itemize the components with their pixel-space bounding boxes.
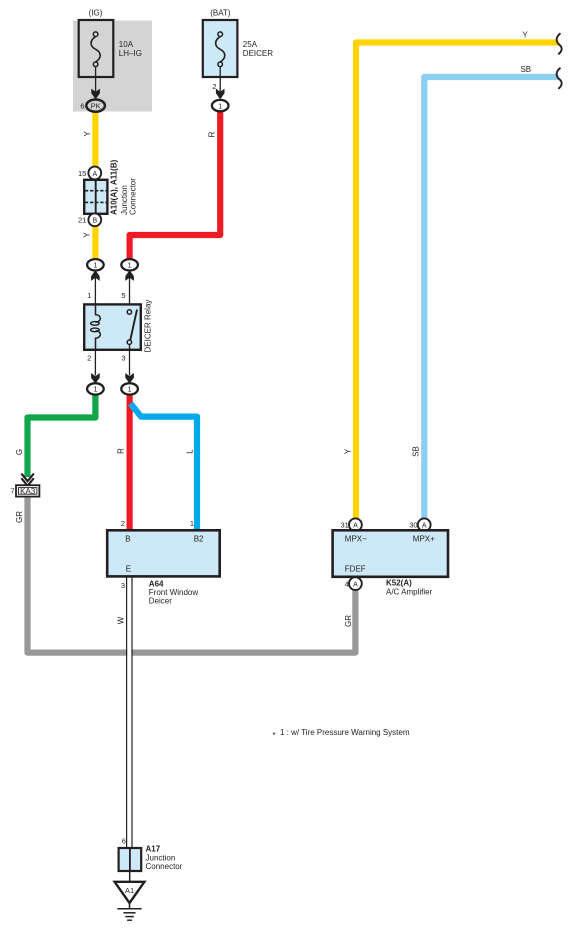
svg-text:GR: GR (344, 615, 353, 627)
svg-text:Connector: Connector (146, 862, 183, 871)
svg-text:A: A (92, 171, 97, 178)
value label 10A LH-IG (119, 40, 142, 58)
svg-text:R: R (117, 448, 126, 454)
junction connector pin A (88, 167, 101, 180)
wire L (relay pin 3 branch to A64 pin B2) (131, 404, 198, 531)
svg-text:Y: Y (82, 232, 91, 238)
svg-text:Y: Y (83, 130, 92, 136)
svg-text:LH–IG: LH–IG (119, 49, 142, 58)
svg-text:MPX−: MPX− (345, 535, 367, 544)
arrow down into lower pin 1 left (91, 373, 100, 384)
svg-text:A: A (422, 523, 427, 530)
junction connector A10(A), A11(B) (84, 180, 107, 214)
amp pin A (MPX+) (418, 518, 431, 531)
svg-text:(IG): (IG) (89, 9, 103, 18)
svg-text:4: 4 (345, 579, 349, 588)
svg-text:A1: A1 (125, 886, 134, 895)
connector KA3 (16, 485, 39, 496)
svg-text:G: G (15, 449, 24, 455)
wire G (relay pin 2 to KA3) (28, 394, 96, 477)
connector pin 1 (yellow into relay) (87, 259, 104, 270)
wire W (A64 pin E to A17, double line) (127, 577, 132, 848)
wire relay pin 5 lead (129, 277, 131, 310)
wire R (BAT fuse to relay pin 5 connector) (130, 111, 221, 259)
svg-text:Connector: Connector (128, 178, 137, 215)
wire Y (MPX- feed to A/C amplifier) (356, 43, 558, 519)
svg-text:1: 1 (93, 385, 97, 394)
junction connector A17 (119, 848, 142, 871)
svg-text:A: A (353, 523, 358, 530)
arrow chevrons into KA3 (21, 474, 33, 486)
svg-text:1: 1 (93, 261, 97, 270)
connector pin PK (86, 100, 105, 112)
svg-text:1: 1 (128, 385, 132, 394)
svg-text:A/C Amplifier: A/C Amplifier (386, 588, 433, 597)
value label 25A DEICER (243, 40, 273, 58)
fuse block shaded panel (73, 21, 152, 112)
svg-text:MPX+: MPX+ (413, 535, 435, 544)
wire relay pin 3 lead (129, 344, 131, 376)
svg-text:W: W (116, 616, 125, 624)
svg-text:B: B (92, 218, 97, 225)
relay DEICER Relay box (84, 304, 141, 349)
svg-text:1: 1 (190, 519, 194, 528)
svg-text:2: 2 (212, 82, 216, 91)
relay coil (91, 305, 101, 349)
svg-text:B: B (125, 535, 130, 544)
svg-text:7: 7 (10, 487, 14, 496)
arrow into pin 6 (91, 89, 100, 100)
svg-text:2: 2 (121, 519, 125, 528)
svg-text:E: E (126, 564, 131, 573)
relay switch (127, 310, 137, 345)
svg-text:A: A (353, 581, 358, 588)
svg-text:3: 3 (121, 581, 125, 590)
break symbol on wire SB (557, 68, 562, 89)
ground symbol (117, 903, 141, 920)
svg-text:1: 1 (87, 291, 91, 300)
wire R (relay pin 3 to A64 pin B) (127, 394, 133, 530)
name label A10(A), A11(B) Junction Connector (110, 159, 138, 215)
svg-text:DEICER: DEICER (243, 49, 273, 58)
fuse 25A DEICER (203, 20, 238, 77)
name label K52(A) A/C Amplifier (386, 579, 433, 597)
junction connector pin B (88, 213, 101, 226)
svg-text:1: 1 (218, 101, 222, 110)
svg-text:1 : w/ Tire Pressure Warning S: 1 : w/ Tire Pressure Warning System (280, 728, 410, 737)
svg-text:SB: SB (412, 446, 421, 457)
arrow into pin 1 (BAT) (216, 89, 225, 100)
svg-text:K52(A): K52(A) (386, 579, 412, 588)
wire from fuse 10A to pin 6 (95, 67, 97, 92)
svg-text:GR: GR (15, 511, 24, 523)
svg-text:FDEF: FDEF (345, 564, 366, 573)
svg-text:Y: Y (343, 448, 352, 454)
svg-text:6: 6 (122, 837, 126, 846)
svg-text:Deicer: Deicer (149, 597, 172, 606)
ECU block K52(A) A/C Amplifier (333, 530, 448, 577)
connector pin 1 (green out) (87, 383, 104, 394)
ground point A1 triangle (115, 882, 145, 903)
name label A17 Junction Connector (146, 845, 183, 871)
fuse 10A LH-IG (79, 20, 114, 77)
amp pin A (MPX-) (349, 518, 362, 531)
svg-text:R: R (207, 131, 216, 137)
wire Y (junction pin 21 to relay pin 1 connector) (92, 225, 98, 260)
svg-text:5: 5 (121, 291, 125, 300)
connector pin 1 (red out) (121, 383, 138, 394)
svg-text:A10(A), A11(B): A10(A), A11(B) (110, 159, 119, 215)
svg-text:KA3: KA3 (20, 487, 36, 496)
name label A64 Front Window Deicer (149, 580, 199, 606)
svg-text:L: L (186, 449, 195, 454)
ECU block A64 Front Window Deicer (107, 530, 220, 576)
svg-text:Y: Y (522, 30, 528, 39)
svg-text:A17: A17 (146, 845, 161, 854)
wire relay pin 2 lead (94, 350, 96, 376)
connector pin 1 (red into relay) (121, 259, 138, 270)
arrow down into lower pin 1 right (125, 373, 134, 384)
arrow up into pin 1 left (91, 270, 100, 281)
svg-text:21: 21 (78, 216, 86, 225)
svg-text:SB: SB (520, 65, 531, 74)
break symbol on wire Y (557, 33, 562, 54)
wire from fuse 25A to pin 2 (219, 67, 221, 92)
svg-text:3: 3 (121, 353, 125, 362)
wire SB (MPX+ feed to A/C amplifier) (424, 77, 558, 519)
svg-text:2: 2 (87, 353, 91, 362)
wire A17 to ground triangle (129, 871, 131, 883)
svg-text:6: 6 (80, 101, 84, 110)
wire relay pin 1 lead (94, 277, 96, 305)
svg-text:*: * (273, 731, 276, 740)
svg-text:15: 15 (78, 169, 86, 178)
svg-text:(BAT): (BAT) (210, 9, 231, 18)
wire Y (IG feed, PK to junction pin 15) (92, 112, 98, 167)
svg-text:PK: PK (91, 101, 101, 110)
arrow up into pin 1 right (125, 270, 134, 281)
amp pin A (FDEF) (349, 577, 362, 590)
connector pin 1 (BAT feed) (212, 100, 229, 111)
wire GR (KA3 to A/C amplifier pin 4) (28, 496, 356, 652)
svg-text:31: 31 (340, 521, 348, 530)
svg-text:B2: B2 (194, 535, 204, 544)
svg-text:1: 1 (128, 261, 132, 270)
svg-text:DEICER Relay: DEICER Relay (144, 300, 153, 353)
svg-text:30: 30 (409, 521, 417, 530)
